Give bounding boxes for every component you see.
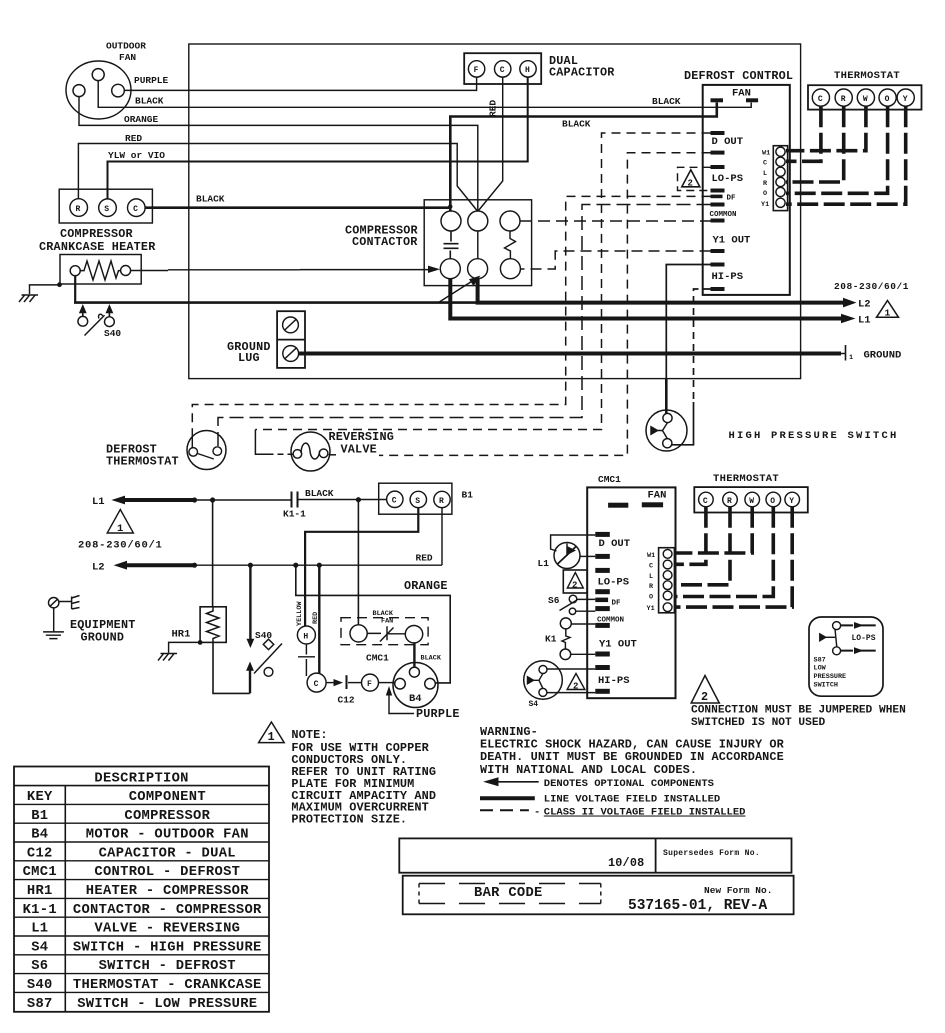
thermostat terminal R [835, 89, 852, 106]
L2 arrowhead (right side) [843, 298, 857, 308]
wire BLACK: B4 top to fan contact right [413, 643, 415, 667]
B1 terminal R [434, 491, 450, 507]
warning triangle 1 (lower) [107, 510, 133, 534]
contactor terminal c6 [500, 259, 520, 279]
fan contact right circle [405, 626, 422, 643]
svg-text:PURPLE: PURPLE [416, 707, 460, 721]
wire: equipment ground bus from lug to ground pin [299, 352, 841, 356]
crankcase heater HR1 box [60, 255, 141, 285]
svg-text:2: 2 [688, 179, 693, 189]
field wire: thermostat C to connector C [786, 106, 821, 161]
svg-text:O: O [649, 594, 653, 602]
label 537165-01, REV-A [628, 898, 768, 914]
label GROUND (right) [864, 350, 902, 362]
label Y1 OUT (CMC1) [599, 639, 637, 651]
S40 thermostat contact bottom [264, 668, 273, 677]
svg-text:C: C [703, 497, 708, 506]
label ORANGE [124, 114, 159, 125]
svg-text:FAN: FAN [381, 618, 393, 626]
contactor coil c3-c6 (zigzag) [505, 231, 516, 259]
svg-text:PURPLE: PURPLE [134, 75, 169, 86]
label BLACK (B4 wire) [421, 655, 442, 663]
wire: heater box left/ground stub [30, 285, 61, 294]
svg-text:C: C [818, 95, 823, 104]
compressor terminal R [70, 199, 88, 217]
fan contact NC bar and blade [367, 626, 405, 641]
label GROUND LUG [227, 340, 271, 365]
CMC1 terminal bar HI-PS [595, 689, 610, 694]
label FAN (small, fan contact) [381, 618, 393, 626]
svg-text:F: F [367, 680, 372, 689]
junction dot L2/red cap [317, 563, 322, 568]
S87 bottom wire with arrow [841, 650, 876, 652]
note text: connection must be jumpered [691, 705, 906, 730]
L2 arrowhead (lower) [114, 561, 127, 570]
svg-text:S: S [104, 205, 109, 214]
high pressure switch bottom terminal [663, 439, 672, 448]
ground lug screw (top) [283, 317, 299, 333]
label THERMOSTAT (upper) [834, 70, 900, 82]
svg-text:L1: L1 [31, 922, 48, 937]
wire: L1 drop to fan contact left [357, 500, 359, 625]
svg-text:FAN: FAN [648, 490, 667, 502]
svg-text:LO-PS: LO-PS [712, 173, 744, 185]
label DF (CMC1) [612, 600, 622, 608]
reversing valve coil symbol [301, 443, 320, 459]
ground pin symbol [841, 345, 846, 361]
svg-text:W1: W1 [647, 552, 655, 560]
svg-text:H: H [303, 632, 308, 641]
label S40 (lower) [255, 630, 272, 641]
outdoor fan terminal (left) [73, 85, 85, 97]
label LO-PS (S87) [852, 634, 876, 643]
svg-text:KEY: KEY [27, 790, 53, 805]
reversing valve body [291, 432, 330, 471]
lower thermostat terminal O [766, 492, 781, 507]
CMC1 FAN bar left [608, 503, 628, 508]
equipment ground screw [49, 598, 59, 608]
table column divider [64, 786, 66, 1012]
S4 pole and blade [534, 673, 544, 688]
svg-text:SWITCH - DEFROST: SWITCH - DEFROST [99, 959, 236, 974]
CMC1 terminal bar 3 [595, 568, 610, 573]
S6 wire to DF [577, 598, 596, 600]
label CMC1 (board) [598, 474, 621, 485]
label YELLOW (vertical) [296, 601, 304, 626]
wire: terminal bar6 to defrost thermostat right terminal (dashed) [218, 205, 711, 447]
svg-text:C12: C12 [27, 846, 53, 861]
svg-text:Supersedes Form No.: Supersedes Form No. [663, 849, 760, 858]
K1 coil bottom terminal [560, 649, 571, 660]
compressor terminal S [99, 199, 117, 217]
svg-text:BLACK: BLACK [135, 96, 164, 107]
title block lower box [403, 876, 794, 915]
S6 bottom contact [569, 608, 575, 614]
K1 coil body [562, 629, 570, 649]
label DEFROST CONTROL [684, 69, 793, 83]
label Y1 OUT [713, 235, 751, 247]
wire BLACK: compressor C to contactor c1 vertical [145, 206, 450, 209]
svg-text:LO-PS: LO-PS [852, 634, 876, 643]
label COMPRESSOR [60, 227, 134, 241]
K1 coil top terminal [560, 618, 571, 629]
label New Form No. [704, 885, 772, 896]
lower thermostat terminal C [699, 492, 714, 507]
lower thermostat terminal Y [785, 492, 800, 507]
field wire: lower thermostat O to connector O [676, 507, 773, 597]
defrost control board box [703, 85, 790, 295]
svg-text:HR1: HR1 [27, 884, 53, 899]
compressor B1 terminal box (lower) [379, 483, 452, 514]
label Supersedes Form No. [663, 849, 760, 858]
contactor terminal c3 [500, 211, 520, 231]
wire: Y1 OUT to contactor coil c6 (dashed) [520, 251, 710, 269]
B1 terminal C [387, 491, 403, 507]
defrost thermostat body [187, 431, 226, 470]
S4 bottom terminal [539, 688, 547, 696]
svg-text:SWITCH - HIGH PRESSURE: SWITCH - HIGH PRESSURE [73, 940, 262, 955]
wire: crankcase heater right terminal to contactor c4 (with arrow) [131, 269, 428, 272]
wire: HR1 ground stub [169, 642, 201, 652]
label D OUT (CMC1) [599, 538, 631, 550]
reversing valve left terminal [293, 450, 302, 459]
CMC1 connector pin C [663, 560, 672, 569]
outdoor fan terminal (top) [92, 69, 104, 81]
defrost control terminal bar DF [711, 195, 723, 199]
svg-text:OUTDOOR: OUTDOOR [106, 41, 146, 52]
defrost control terminal bar COMMON [711, 219, 725, 223]
svg-text:L: L [649, 573, 653, 581]
junction dot heater bottom left [57, 282, 62, 287]
svg-text:B4: B4 [31, 828, 48, 843]
svg-text:K1-1: K1-1 [283, 509, 306, 520]
wire: F to B4 left terminal [379, 682, 395, 684]
svg-text:1: 1 [268, 730, 275, 744]
heater HR1 box [200, 607, 226, 643]
label HI-PS (CMC1) [598, 675, 630, 687]
label RED (vertical, dual cap C wire) [488, 100, 499, 117]
label FAN (CMC1) [648, 490, 667, 502]
svg-text:L1: L1 [92, 496, 105, 508]
svg-text:C12: C12 [338, 695, 355, 706]
contactor terminal c4 [440, 259, 460, 279]
svg-text:FAN: FAN [119, 52, 136, 63]
field wire: lower thermostat Y to connector Y1 [676, 507, 792, 607]
svg-text:VALVE: VALVE [341, 443, 377, 457]
S87 pole nub [820, 634, 826, 641]
defrost control terminal bar D OUT [711, 131, 725, 135]
thermostat terminal block (lower) [694, 487, 808, 512]
dual capacitor terminal C [495, 61, 511, 77]
label B1 [462, 490, 474, 501]
S87 pole line [826, 636, 835, 638]
unit cabinet outline (main box) [189, 44, 801, 379]
svg-text:BLACK: BLACK [421, 655, 442, 663]
svg-text:B4: B4 [409, 693, 422, 705]
CMC1 terminal bar 9 [595, 665, 610, 670]
junction dot compressor black / c1 drop [448, 204, 452, 208]
wire ORANGE: L2 to B4 right terminal [296, 565, 450, 683]
label DEFROST THERMOSTAT [106, 443, 179, 469]
svg-text:C: C [763, 160, 767, 168]
label BLACK (contactor fan wire) [562, 119, 591, 130]
svg-text:RED: RED [125, 133, 142, 144]
svg-text:WITH NATIONAL AND LOCAL CODES.: WITH NATIONAL AND LOCAL CODES. [480, 763, 697, 777]
svg-text:Y: Y [903, 95, 908, 104]
wire: L2 bus from contactor c5 down and right to L2 arrow [478, 279, 843, 303]
S87 top contact [833, 622, 841, 630]
wire L1 supply (thick then thin) [124, 498, 194, 502]
svg-text:SWITCH: SWITCH [814, 682, 838, 690]
wire L2 feed to crankcase/S40 (thick, runs right to L2 arrow) [74, 301, 478, 304]
svg-text:CAPACITOR - DUAL: CAPACITOR - DUAL [99, 846, 236, 861]
svg-text:DF: DF [612, 600, 622, 608]
high pressure switch S4 body [646, 410, 687, 451]
thermostat terminal W [857, 89, 874, 106]
label K1 [545, 634, 557, 645]
wire: K1-1 to B1 C terminal [298, 499, 387, 501]
defrost control terminal bar 9 [711, 263, 725, 267]
CMC1 connector pin Y1 [663, 603, 672, 612]
wire RED: B1 R down to L2 [441, 508, 443, 565]
CMC1 terminal bar Y1 OUT [595, 652, 610, 657]
thermostat terminal O [879, 89, 896, 106]
label BLACK (K1-1 wire) [305, 488, 334, 499]
junction dot L1/HR1 [210, 497, 215, 502]
svg-text:1: 1 [849, 354, 853, 362]
wire PURPLE: fan right terminal to dual capacitor F [124, 77, 476, 90]
crankcase heater left terminal [70, 266, 80, 276]
svg-text:2: 2 [572, 581, 577, 591]
junction dot L2/S40 [248, 563, 253, 568]
label LO-PS (CMC1) [598, 577, 630, 589]
label 208-230/60/1 (lower) [78, 540, 163, 552]
CMC1 connector pin O [663, 591, 672, 600]
CMC1 defrost control board box (lower) [587, 487, 675, 698]
S40 blade [254, 644, 282, 674]
crankcase heater right terminal [121, 266, 131, 276]
wire YELLOW: B1 S down, left, down to capacitor H [305, 508, 418, 627]
svg-text:CONTACTOR - COMPRESSOR: CONTACTOR - COMPRESSOR [73, 903, 262, 918]
label BLACK (near defrost control) [652, 96, 681, 107]
capacitor C12 terminal C [307, 673, 326, 692]
label ORANGE (lower) [404, 579, 448, 593]
S87 blade [835, 629, 837, 647]
ground lug box [277, 311, 305, 368]
svg-text:THERMOSTAT - CRANKCASE: THERMOSTAT - CRANKCASE [73, 978, 262, 993]
svg-text:FAN: FAN [732, 88, 751, 100]
S40 switch blade [85, 314, 105, 335]
label HR1 [172, 629, 191, 641]
svg-text:L1: L1 [858, 315, 871, 327]
svg-text:1: 1 [885, 308, 891, 319]
svg-text:COMPRESSOR: COMPRESSOR [124, 809, 210, 824]
HR1 resistor element (vertical zigzag) [207, 607, 220, 643]
svg-text:COMPONENT: COMPONENT [129, 790, 206, 805]
svg-text:SWITCH - LOW PRESSURE: SWITCH - LOW PRESSURE [77, 997, 257, 1012]
purple arrow at B4 [386, 686, 392, 696]
arrow into c4 (optional component arrow) [428, 266, 440, 273]
warning triangle 2 (LO-PS jumper) [682, 170, 700, 187]
wire BLACK: fan top terminal down then right to defrost control FAN bar [98, 81, 751, 108]
svg-text:C: C [500, 66, 505, 75]
wire: COMMON terminal to contactor coil c3 (dashed) [520, 220, 711, 222]
svg-text:SWITCHED IS NOT USED: SWITCHED IS NOT USED [691, 717, 826, 729]
svg-text:VALVE - REVERSING: VALVE - REVERSING [94, 922, 240, 937]
svg-text:BLACK: BLACK [652, 96, 681, 107]
svg-text:Y1: Y1 [761, 201, 769, 209]
svg-text:YLW or VIO: YLW or VIO [108, 150, 165, 161]
connector pin W1 [776, 147, 785, 156]
contactor terminal c2 [468, 211, 488, 231]
svg-text:CRANKCASE HEATER: CRANKCASE HEATER [39, 240, 156, 254]
svg-text:10/08: 10/08 [608, 856, 644, 870]
S40 contact circle left [78, 316, 88, 326]
CMC1 connector strip [659, 548, 675, 613]
connector pin labels W C L R O Y1 [761, 150, 770, 209]
svg-text:S4: S4 [31, 940, 48, 955]
svg-text:HR1: HR1 [172, 629, 191, 641]
S6 blade [560, 600, 578, 611]
field wire: lower thermostat R to connector R [676, 507, 730, 585]
label COMMON (CMC1) [597, 617, 624, 625]
high pressure switch top terminal [663, 413, 672, 422]
svg-text:C: C [314, 680, 319, 689]
purple leader line [389, 696, 414, 714]
CMC1 terminal bar COMMON [595, 623, 610, 628]
high pressure switch pole nub [651, 427, 658, 434]
svg-text:C: C [649, 563, 653, 571]
fan motor B4 body (lower) [393, 663, 438, 708]
svg-text:HI-PS: HI-PS [598, 675, 630, 687]
svg-text:W1: W1 [762, 150, 770, 158]
CMC1 FAN bar right [642, 502, 663, 507]
reversing valve solenoid L1 [554, 543, 580, 569]
junction dot L2/orange [293, 563, 298, 568]
compressor contactor K1 box [424, 200, 531, 286]
svg-text:COMMON: COMMON [710, 211, 737, 219]
svg-text:RED: RED [488, 100, 499, 117]
label YLW or VIO [108, 150, 165, 161]
svg-text:O: O [885, 95, 890, 104]
L1 solenoid internals [558, 546, 577, 564]
defrost thermostat right terminal [213, 447, 222, 456]
svg-text:GROUND: GROUND [864, 350, 902, 362]
defrost control terminal bar Y1 OUT [711, 249, 725, 253]
svg-text:L1: L1 [538, 558, 550, 569]
CMC1 connector pin R [663, 581, 672, 590]
svg-text:D OUT: D OUT [712, 136, 744, 148]
wire: DF terminal to defrost thermostat (dashed drop) [192, 196, 710, 431]
label FAN (defrost control) [732, 88, 751, 100]
label BLACK (fan wire) [135, 96, 164, 107]
label S40 [104, 328, 121, 339]
table rows text [23, 790, 262, 1012]
label D OUT [712, 136, 744, 148]
B4 right terminal [425, 678, 436, 689]
label RED (vertical, lower) [312, 612, 320, 624]
svg-text:LO-PS: LO-PS [598, 577, 630, 589]
svg-text:ORANGE: ORANGE [124, 114, 159, 125]
label RED (lower) [416, 553, 433, 564]
LO-PS jumper (dashed) around warning triangle [678, 167, 711, 190]
label S4 [529, 700, 539, 709]
svg-text:L: L [763, 170, 767, 178]
high pressure switch pole and blade [658, 423, 668, 439]
svg-text:CAPACITOR: CAPACITOR [549, 66, 615, 80]
warning triangle 1 (upper) [877, 301, 899, 318]
svg-text:O: O [770, 497, 775, 506]
svg-text:R: R [439, 497, 444, 506]
svg-text:CMC1: CMC1 [366, 653, 389, 664]
thermostat terminal C [812, 89, 829, 106]
dual capacitor terminal H [520, 61, 536, 77]
label C12 [338, 695, 355, 706]
outdoor fan terminal (right) [112, 84, 125, 97]
contactor link c2-c5 [477, 231, 479, 259]
CMC1 terminal bar 6 [595, 606, 610, 611]
svg-text:H: H [525, 66, 530, 75]
S6 defrost switch top contact [569, 595, 577, 603]
svg-text:K1-1: K1-1 [23, 903, 57, 918]
svg-text:ORANGE: ORANGE [404, 579, 448, 593]
svg-text:HI-PS: HI-PS [712, 271, 744, 283]
svg-text:2: 2 [701, 690, 708, 704]
defrost control terminal bar 6 [711, 203, 725, 207]
wire: L1 bus from contactor c4 down and right to L1 arrow [450, 279, 841, 319]
label DUAL CAPACITOR [549, 54, 615, 80]
wire ORANGE: fan left terminal down then right to contactor c2 [79, 97, 478, 212]
svg-text:C: C [392, 497, 397, 506]
field wire: lower thermostat W to connector W1 [676, 507, 752, 553]
svg-text:YELLOW: YELLOW [296, 601, 304, 626]
svg-text:GROUND: GROUND [81, 631, 125, 645]
outdoor fan motor B4 body [66, 61, 131, 119]
svg-text:CMC1: CMC1 [23, 865, 57, 880]
svg-text:DEFROST CONTROL: DEFROST CONTROL [684, 69, 793, 83]
svg-text:1: 1 [117, 523, 123, 535]
wire RED: compressor R up and right, down, diagonal into contactor c2 [78, 144, 477, 211]
label S6 [548, 595, 560, 606]
reversing valve right terminal [319, 449, 328, 458]
field wire: thermostat R to connector R [786, 106, 844, 182]
label REVERSING VALVE [329, 430, 395, 457]
CMC1 terminal bar D OUT [595, 532, 610, 537]
svg-text:PRESSURE: PRESSURE [814, 673, 847, 681]
label K1-1 [283, 509, 306, 520]
CMC1 terminal bar DF [595, 598, 608, 603]
L1 arrowhead (lower) [111, 496, 125, 505]
wire: heater left terminal down to L2 feed line [74, 276, 76, 303]
CMC1 connector pin L [663, 571, 672, 580]
svg-text:537165-01, REV-A: 537165-01, REV-A [628, 898, 768, 914]
label CMC1 (fan contact) [366, 653, 389, 664]
label L1 (solenoid) [538, 558, 550, 569]
svg-text:THERMOSTAT: THERMOSTAT [106, 455, 179, 469]
svg-text:C: C [133, 205, 138, 214]
L1 arrowhead (right side) [841, 314, 856, 324]
svg-text:HIGH PRESSURE SWITCH: HIGH PRESSURE SWITCH [729, 430, 899, 442]
contactor main contact c1-c4 (capacitor-like bars) [444, 231, 459, 259]
label L2 (lower left) [92, 562, 105, 574]
field wire: lower thermostat C to connector C [676, 507, 706, 565]
thermostat terminal Y [897, 89, 914, 106]
wire: S40 bottom stem (arrow up) [249, 670, 251, 693]
S87 low pressure switch enclosure [809, 617, 883, 696]
svg-text:R: R [727, 497, 732, 506]
svg-text:PROTECTION SIZE.: PROTECTION SIZE. [291, 813, 407, 827]
defrost thermostat blade [198, 454, 214, 460]
